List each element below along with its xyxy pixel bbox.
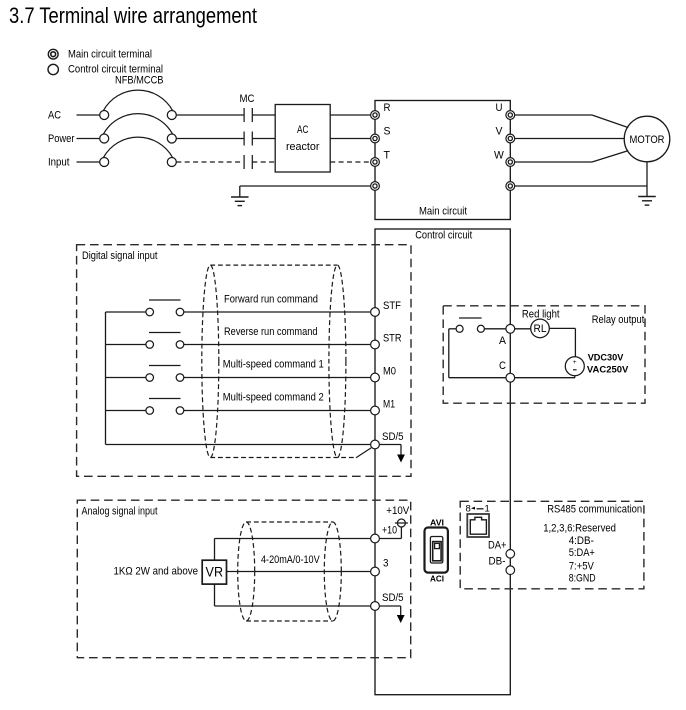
- svg-text:3.7 Terminal wire arrangement: 3.7 Terminal wire arrangement: [9, 3, 258, 28]
- svg-text:A: A: [499, 335, 507, 347]
- svg-text:VAC250V: VAC250V: [587, 364, 629, 374]
- svg-text:reactor: reactor: [286, 141, 320, 153]
- svg-text:T: T: [384, 150, 391, 162]
- svg-text:RL: RL: [534, 323, 547, 335]
- svg-text:Forward run command: Forward run command: [224, 294, 318, 306]
- svg-text:5:DA+: 5:DA+: [569, 547, 595, 559]
- svg-text:Input: Input: [48, 157, 70, 169]
- svg-text:SD/5: SD/5: [382, 431, 404, 443]
- svg-text:MOTOR: MOTOR: [630, 134, 665, 146]
- svg-text:8: 8: [466, 503, 471, 514]
- svg-text:W: W: [494, 150, 504, 162]
- svg-text:+10: +10: [382, 525, 397, 537]
- svg-text:Control circuit terminal: Control circuit terminal: [68, 63, 163, 75]
- svg-text:R: R: [384, 102, 391, 114]
- svg-text:Multi-speed command 2: Multi-speed command 2: [223, 392, 324, 404]
- svg-text:Multi-speed command 1: Multi-speed command 1: [223, 359, 324, 371]
- svg-text:3: 3: [383, 558, 389, 570]
- svg-text:Main circuit: Main circuit: [419, 206, 467, 218]
- svg-text:STF: STF: [383, 300, 401, 312]
- svg-text:4-20mA/0-10V: 4-20mA/0-10V: [261, 554, 320, 566]
- svg-text:AC: AC: [297, 124, 309, 136]
- svg-text:AVI: AVI: [430, 518, 444, 528]
- svg-text:+: +: [573, 359, 577, 366]
- svg-text:ACI: ACI: [430, 574, 444, 584]
- svg-text:7:+5V: 7:+5V: [569, 561, 595, 573]
- svg-text:S: S: [384, 126, 391, 138]
- svg-text:1,2,3,6:Reserved: 1,2,3,6:Reserved: [543, 523, 616, 535]
- svg-text:NFB/MCCB: NFB/MCCB: [115, 75, 164, 87]
- svg-text:Digital signal input: Digital signal input: [82, 250, 158, 262]
- svg-text:DB-: DB-: [489, 555, 506, 567]
- svg-text:Reverse run command: Reverse run command: [224, 326, 318, 338]
- svg-text:DA+: DA+: [488, 540, 507, 552]
- svg-text:M0: M0: [383, 366, 396, 378]
- svg-text:VR: VR: [206, 564, 224, 580]
- svg-text:AC: AC: [48, 110, 61, 122]
- svg-text:RS485 communication: RS485 communication: [547, 504, 642, 516]
- svg-text:1: 1: [485, 503, 490, 514]
- svg-text:4:DB-: 4:DB-: [569, 535, 594, 547]
- svg-text:C: C: [499, 360, 506, 372]
- svg-text:V: V: [496, 126, 504, 138]
- svg-text:STR: STR: [383, 333, 402, 345]
- svg-text:+10V: +10V: [386, 505, 410, 517]
- svg-text:Control circuit: Control circuit: [415, 230, 472, 242]
- svg-text:MC: MC: [240, 93, 255, 105]
- svg-text:Main circuit terminal: Main circuit terminal: [68, 49, 152, 61]
- svg-text:M1: M1: [383, 399, 395, 411]
- svg-text:8:GND: 8:GND: [569, 572, 596, 584]
- svg-text:VDC30V: VDC30V: [588, 353, 625, 363]
- svg-text:U: U: [496, 102, 503, 114]
- svg-text:Analog signal input: Analog signal input: [82, 506, 158, 518]
- svg-text:Relay output: Relay output: [592, 314, 645, 326]
- svg-text:Red light: Red light: [522, 308, 560, 320]
- svg-text:Power: Power: [48, 133, 75, 145]
- svg-text:SD/5: SD/5: [382, 592, 404, 604]
- svg-text:1KΩ 2W and above: 1KΩ 2W and above: [114, 566, 199, 578]
